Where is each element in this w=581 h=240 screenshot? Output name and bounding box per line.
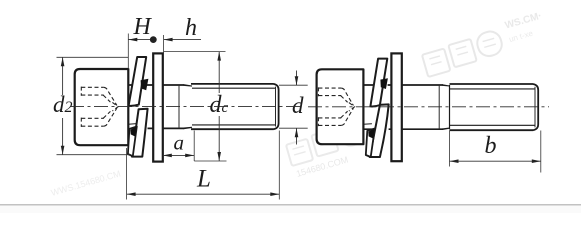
watermark middle bbox=[285, 120, 370, 180]
dimension d2 arrow down bbox=[61, 146, 65, 155]
shaft end left view bbox=[274, 84, 279, 129]
shaft end chamfer line right view bbox=[534, 87, 536, 128]
thread root lines left view bbox=[192, 88, 275, 125]
spring washer upper cut face right view bbox=[380, 78, 388, 89]
flat washer right view bbox=[391, 53, 401, 161]
dimension d2 extension bottom bbox=[57, 154, 130, 156]
dimension d arrow down bbox=[295, 76, 299, 85]
dimension d2 line bbox=[62, 57, 64, 154]
svg-text:b: b bbox=[485, 133, 497, 159]
centerline right view bbox=[308, 106, 549, 108]
dimension H extension line bbox=[127, 34, 129, 70]
dimension h line with outside arrow bbox=[164, 39, 201, 41]
svg-text:h: h bbox=[185, 15, 197, 41]
watermark top right bbox=[419, 11, 549, 77]
shaft end right view bbox=[533, 84, 538, 130]
flat washer left view bbox=[153, 53, 163, 161]
spring washer upper cut face left view bbox=[141, 79, 149, 91]
shaft right view gap segments head to washer bbox=[363, 85, 391, 129]
spring washer lower cut face right view bbox=[368, 129, 375, 139]
dimension d arrow up bbox=[295, 128, 299, 137]
dimension h extension line bbox=[163, 35, 165, 53]
dimension d2 arrow up bbox=[61, 57, 65, 66]
watermark bottom left bbox=[50, 168, 122, 197]
dimension d2 extension top bbox=[57, 56, 129, 58]
shank feature line left view bbox=[178, 85, 180, 128]
dimension h arrow bbox=[164, 38, 173, 42]
thread root lines right view bbox=[450, 89, 535, 125]
dimension d extension bottom bbox=[279, 127, 308, 129]
thread crest lines right view bbox=[450, 84, 534, 130]
svg-text:d: d bbox=[292, 93, 304, 118]
screw head left view bbox=[75, 69, 129, 145]
dimension L extension right bbox=[278, 131, 280, 200]
hex socket hidden lines left view bbox=[81, 87, 118, 127]
dimension H arrow bbox=[128, 38, 137, 42]
dimension L line bbox=[127, 193, 280, 195]
dimension d lower leader bbox=[296, 128, 298, 144]
thread runout wedge top left view bbox=[184, 85, 192, 87]
spring washer lower section left view bbox=[132, 109, 148, 157]
shaft right view plain shank bbox=[402, 85, 443, 129]
dimension dc line bbox=[218, 52, 220, 161]
shaft left view plain shank bbox=[128, 85, 184, 128]
spring washer upper section left view bbox=[129, 57, 147, 106]
dimension b extension right bbox=[540, 131, 542, 173]
shank feature line right view bbox=[438, 85, 440, 129]
screw head right view bbox=[317, 69, 364, 144]
dimension b arrow right bbox=[532, 159, 541, 163]
dimension a line bbox=[163, 154, 194, 156]
dimension L extension left bbox=[126, 148, 128, 200]
dimension H line bbox=[128, 39, 153, 41]
spring washer lower split end left view bbox=[128, 127, 137, 157]
spring washer upper section right view bbox=[370, 59, 387, 107]
dimension dc extension bottom bbox=[194, 160, 226, 162]
svg-text:H: H bbox=[133, 14, 153, 40]
spring washer lower section right view bbox=[370, 104, 389, 157]
centerline left view bbox=[70, 106, 303, 108]
spring washer lower cut face left view bbox=[130, 127, 136, 137]
dimension a extension right bbox=[193, 131, 195, 162]
dimension a arrow right bbox=[185, 154, 194, 158]
dimension dc arrow up bbox=[217, 52, 221, 61]
dimension b arrow left bbox=[450, 159, 459, 163]
dimension dc extension top bbox=[164, 51, 226, 53]
svg-text:L: L bbox=[196, 166, 211, 193]
dimension b line bbox=[450, 160, 541, 162]
svg-text:a: a bbox=[174, 130, 185, 154]
spring washer lower split end right view bbox=[366, 129, 375, 158]
hex socket hidden lines right view bbox=[318, 87, 354, 126]
dimension d extension top bbox=[279, 84, 308, 86]
dimension L arrow left bbox=[127, 192, 136, 196]
shaft end chamfer line left view bbox=[275, 87, 277, 127]
thread runout wedge bottom left view bbox=[184, 127, 192, 129]
thread start line right view bbox=[449, 85, 451, 129]
thread crest lines left view bbox=[191, 84, 274, 129]
dimension a arrow left bbox=[163, 154, 172, 158]
dimension L arrow right bbox=[270, 192, 279, 196]
thread runout wedge top right view bbox=[443, 85, 450, 86]
dimension b extension left bbox=[449, 131, 451, 167]
dimension H dot bbox=[150, 36, 157, 43]
dimension d upper leader bbox=[296, 71, 298, 86]
dimension dc arrow down bbox=[217, 152, 221, 161]
page separator bar bbox=[0, 204, 581, 206]
thread runout wedge bottom right view bbox=[443, 128, 450, 130]
